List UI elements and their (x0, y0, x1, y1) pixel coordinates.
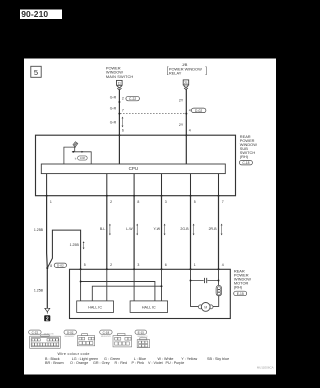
motor pin6 wire to HALL IC 2 (161, 269, 163, 301)
svg-text:MU11E06CA: MU11E06CA (257, 366, 274, 370)
pin numbers under switch box (50, 200, 224, 204)
svg-text:1.25B: 1.25B (70, 243, 80, 247)
power window main switch box (36, 135, 236, 196)
internal component flag symbol (73, 142, 78, 148)
svg-text:MU802537: MU802537 (65, 336, 76, 338)
svg-text:2Y: 2Y (179, 123, 184, 127)
CPU output stub pin8 (133, 174, 135, 196)
svg-text:CPU: CPU (129, 166, 139, 171)
svg-text:10M: 10M (80, 156, 85, 160)
svg-text:8: 8 (137, 200, 139, 204)
internal stem wire (74, 148, 76, 152)
label: REAR POWER WINDOW SUB SWITCH (RH) (240, 134, 257, 159)
CPU box (41, 164, 225, 174)
svg-text:2: 2 (122, 97, 124, 101)
motor M symbol (198, 303, 213, 312)
nodes at motor box top edge (80, 268, 220, 270)
wire colour code line 1 (45, 357, 229, 361)
motor pin2 wire (106, 269, 108, 301)
schematic page background (24, 59, 276, 375)
rear power window motor box (70, 269, 231, 318)
svg-text:M: M (204, 305, 207, 309)
motor pin4 wire lower (211, 296, 218, 307)
svg-text:E-15: E-15 (138, 330, 145, 334)
svg-text:D-02: D-02 (67, 330, 74, 334)
svg-text:5: 5 (34, 68, 38, 77)
motor pin5 wire to HALL IC 1 (80, 269, 82, 301)
svg-text:11: 11 (118, 81, 122, 85)
svg-text:7: 7 (222, 200, 224, 204)
capacitor branch (191, 278, 219, 283)
ground symbol (45, 308, 50, 313)
svg-text:21: 21 (184, 81, 188, 85)
svg-text:B-L: B-L (100, 227, 106, 231)
wire Y-W (161, 196, 163, 270)
node at switch box top, G-R wire (118, 134, 120, 136)
svg-text:E-15: E-15 (237, 292, 244, 296)
HALL IC 2 box (130, 301, 168, 313)
svg-text:G-R: G-R (110, 121, 117, 125)
wire 1.25B ground run (46, 196, 49, 309)
svg-text:HALL IC: HALL IC (88, 306, 102, 310)
svg-text:Y-W: Y-W (154, 227, 161, 231)
nodes at switch box bottom edge (46, 195, 220, 197)
svg-text:C-18: C-18 (242, 161, 249, 165)
wire L-W (133, 196, 135, 270)
svg-text:2: 2 (110, 200, 112, 204)
figure number box 5 (31, 66, 41, 77)
connector ref D-02 lower (54, 263, 66, 267)
branch wire 1.25B to motor pin5 (47, 230, 80, 269)
svg-text:R : Red: R : Red (115, 361, 128, 365)
svg-text:4: 4 (189, 109, 191, 113)
connector pin 11 at main switch (117, 80, 123, 90)
junction node pin4 relay wire (185, 113, 187, 115)
svg-text:G-R: G-R (110, 107, 117, 111)
svg-text:L-W: L-W (126, 227, 133, 231)
connector ref D-02 (191, 108, 206, 113)
svg-text:6: 6 (165, 263, 167, 267)
internal wire left branch (64, 147, 75, 164)
internal node (72, 151, 74, 153)
svg-text:2: 2 (110, 263, 112, 267)
svg-text:GR : Grey: GR : Grey (93, 361, 110, 365)
continuation arrow on branch (83, 241, 85, 249)
dashed wire link pin7 to pin4 (120, 113, 186, 115)
motor pin4 wire upper (218, 269, 220, 285)
svg-text:HALL IC: HALL IC (142, 306, 156, 310)
label: POWER WINDOW MAIN SWITCH (106, 66, 134, 79)
svg-text:C-22: C-22 (32, 330, 39, 334)
svg-text:P : Pink: P : Pink (132, 361, 145, 365)
svg-text:2: 2 (46, 316, 49, 322)
wire 2Y from relay down into switch box (185, 89, 187, 164)
connector ref C-22 (126, 96, 139, 101)
CPU output stub pin5 (190, 174, 192, 196)
svg-text:5: 5 (194, 200, 196, 204)
svg-text:MU802525: MU802525 (101, 336, 112, 338)
continuation arrow on G-R wire (122, 117, 124, 128)
label: REAR POWER WINDOW MOTOR (RH) (234, 269, 251, 290)
svg-text:3: 3 (165, 200, 167, 204)
node pin6 crossover (161, 285, 163, 287)
connector view E-15 (135, 330, 150, 348)
svg-text:(RH): (RH) (240, 154, 249, 159)
connector pin 21 at relay (183, 80, 189, 90)
CPU output stub pin2 (106, 174, 108, 196)
connector view C-22 (29, 330, 61, 348)
internal ref label (78, 156, 88, 160)
node pin5 crossover (80, 281, 82, 283)
connector view C-18 (100, 330, 132, 347)
CPU output stub pin3 (161, 174, 163, 196)
svg-text:4: 4 (189, 129, 191, 133)
internal junction wire with corner (72, 152, 91, 164)
circuit breaker coil (216, 285, 222, 296)
page number plate 90-210 (20, 9, 62, 19)
svg-text:PU : Purple: PU : Purple (166, 361, 185, 365)
svg-text:1.25B: 1.25B (34, 289, 44, 293)
ground number 2 plate (44, 315, 50, 322)
svg-text:D-02: D-02 (57, 264, 64, 268)
svg-text:3: 3 (137, 263, 139, 267)
wire 2R-B (218, 196, 220, 270)
svg-text:D-02: D-02 (195, 109, 202, 113)
capacitor branch nodes (190, 280, 192, 282)
wire colour labels (100, 227, 217, 231)
HALL IC 1 box (77, 301, 114, 313)
svg-text:O : Orange: O : Orange (70, 361, 88, 365)
motor pin1 wire (191, 269, 200, 306)
junction node pin2/C-22 (118, 101, 120, 103)
node at switch box top, relay wire (185, 134, 187, 136)
motor pin3 wire (133, 269, 135, 301)
svg-text:2Y: 2Y (179, 99, 184, 103)
svg-text:BR : Brown: BR : Brown (45, 361, 64, 365)
svg-text:C-22: C-22 (129, 97, 136, 101)
svg-text:7: 7 (122, 109, 124, 113)
svg-text:1: 1 (50, 200, 52, 204)
crossover wire pin5 to HALL IC 2 (81, 282, 155, 301)
CPU output stub pin1 (46, 174, 48, 196)
connector ref E-15 (234, 291, 247, 296)
svg-text:2R-B: 2R-B (209, 227, 218, 231)
svg-text:SB : Sky blue: SB : Sky blue (207, 357, 229, 361)
wire G-R from main switch connector down into switch box (118, 89, 120, 164)
svg-text:Wire colour code: Wire colour code (58, 352, 90, 356)
svg-text:90-210: 90-210 (21, 9, 48, 19)
junction node D-02 pin8 (46, 267, 48, 269)
crossover wire pin6 to HALL IC 1 (92, 286, 161, 301)
svg-text:5: 5 (84, 263, 86, 267)
svg-text:8: 8 (50, 264, 52, 268)
continuation arrows beside drop wires (109, 224, 223, 236)
svg-text:6: 6 (122, 129, 124, 133)
svg-text:RELAY: RELAY (169, 70, 182, 75)
wire colour code line 2 (45, 361, 184, 365)
svg-text:MAIN SWITCH: MAIN SWITCH (106, 74, 134, 79)
junction node pin7 (118, 113, 120, 115)
svg-text:2G-B: 2G-B (180, 227, 189, 231)
svg-text:(RH): (RH) (234, 285, 243, 290)
svg-text:1: 1 (194, 263, 196, 267)
connector view D-02 (64, 330, 95, 346)
label: J/B POWER WINDOW RELAY (167, 62, 206, 76)
svg-text:4: 4 (222, 263, 224, 267)
wire 2G-B (190, 196, 192, 270)
pin numbers above motor box (84, 263, 224, 267)
svg-text:V : Violet: V : Violet (148, 361, 163, 365)
svg-text:C-18: C-18 (103, 330, 110, 334)
svg-text:G-R: G-R (110, 96, 117, 100)
connector ref C-18 (239, 160, 252, 165)
svg-text:1.25B: 1.25B (34, 228, 44, 232)
wire label G-R (upper) (110, 96, 184, 128)
internal arrow node (82, 151, 84, 153)
wire B-L (106, 196, 108, 270)
CPU output stub pin7 (218, 174, 220, 196)
